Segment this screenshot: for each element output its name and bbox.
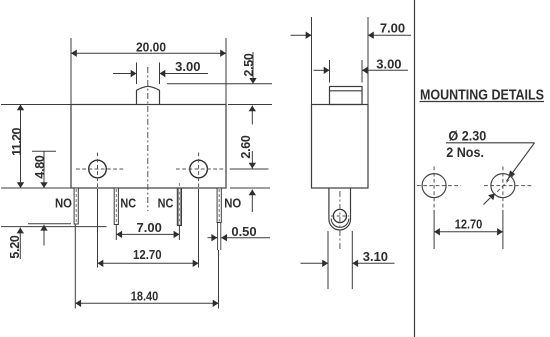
side centerline	[339, 191, 341, 249]
dimension 2.50	[167, 52, 272, 84]
rotated dimension text 2.50	[242, 35, 256, 95]
dimension 2.60	[228, 105, 272, 170]
pointer arrow to hole B	[484, 194, 495, 205]
terminal length arrow right	[230, 188, 270, 212]
dimension 12.70 mounting	[434, 210, 503, 249]
rotated dimension text 11.20	[10, 112, 24, 172]
terminal pin NO left	[74, 188, 78, 224]
svg-text:3.00: 3.00	[376, 56, 401, 71]
dimension 20.00	[71, 38, 226, 105]
svg-text:12.70: 12.70	[133, 247, 162, 262]
hole B diagonal axis	[493, 175, 514, 196]
callout hole size	[446, 129, 535, 181]
terminal pin NC right	[177, 183, 181, 226]
svg-text:18.40: 18.40	[131, 288, 159, 303]
lug hole	[331, 209, 349, 222]
svg-text:2 Nos.: 2 Nos.	[446, 145, 484, 160]
svg-text:Ø 2.30: Ø 2.30	[448, 129, 486, 144]
dimension 3.10 lug	[301, 231, 395, 289]
mounting hole left	[76, 153, 124, 188]
dimension 4.80	[32, 151, 56, 188]
front view body	[71, 105, 226, 189]
side view body	[312, 105, 369, 189]
svg-text:NO: NO	[224, 196, 241, 211]
mounting hole A	[417, 167, 461, 211]
dimension 7.00 side	[291, 17, 412, 105]
rotated dimension text 4.80	[33, 137, 47, 197]
svg-text:7.00: 7.00	[137, 220, 162, 235]
mounting hole B	[484, 167, 533, 211]
dimension 3.00 side	[314, 56, 409, 82]
svg-text:NO: NO	[55, 196, 72, 211]
dimension 18.40	[75, 225, 218, 309]
dimension 0.50 terminal width	[208, 224, 271, 241]
svg-text:NC: NC	[120, 196, 136, 211]
svg-text:NC: NC	[158, 196, 174, 211]
dimension 5.20	[1, 224, 107, 259]
dimension 7.00 terminals	[116, 220, 179, 240]
terminal pin NO right	[217, 188, 221, 250]
dimension 3.00 plunger	[113, 59, 208, 84]
svg-text:12.70: 12.70	[455, 216, 483, 231]
svg-text:3.10: 3.10	[363, 249, 388, 264]
svg-text:7.00: 7.00	[380, 20, 405, 35]
rotated dimension text 2.60	[239, 117, 253, 177]
title MOUNTING DETAILS	[420, 88, 545, 104]
svg-text:0.50: 0.50	[231, 224, 256, 239]
side mounting lug	[329, 188, 351, 230]
svg-text:3.00: 3.00	[175, 59, 200, 74]
plunger centerline	[147, 67, 149, 211]
panel divider	[414, 0, 416, 337]
dimension 11.20	[1, 105, 71, 189]
plunger button	[137, 86, 160, 104]
rotated dimension text 5.20	[8, 217, 22, 277]
side plunger	[330, 87, 363, 105]
mounting hole right	[176, 153, 224, 188]
dimension 12.70 holes	[98, 189, 199, 268]
terminal pin NC left	[114, 188, 118, 225]
svg-text:20.00: 20.00	[136, 39, 166, 54]
